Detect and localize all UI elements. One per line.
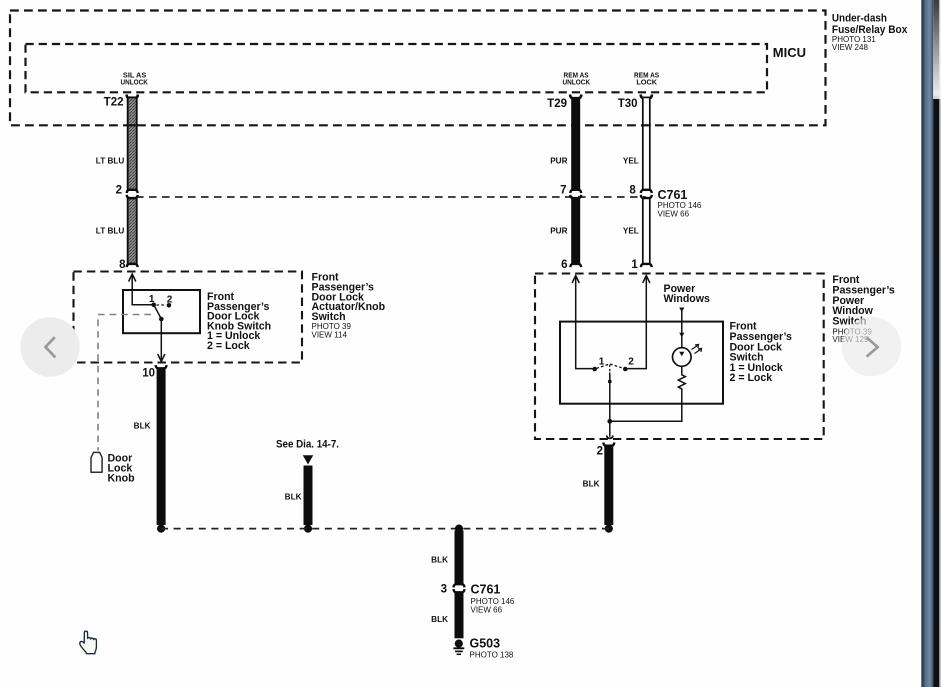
knob switch inner box	[123, 290, 200, 333]
svg-text:LT BLU: LT BLU	[96, 156, 125, 165]
svg-text:UNLOCK: UNLOCK	[120, 79, 148, 86]
svg-text:VIEW 66: VIEW 66	[471, 606, 503, 615]
svg-text:2 = Lock: 2 = Lock	[207, 340, 250, 352]
junction node (See Dia)	[304, 525, 312, 533]
svg-text:VIEW 114: VIEW 114	[312, 331, 348, 340]
svg-text:VIEW 248: VIEW 248	[832, 43, 869, 52]
svg-text:PHOTO 39: PHOTO 39	[312, 322, 352, 331]
resistor	[678, 366, 685, 390]
lamp light rays	[692, 345, 702, 354]
svg-text:T22: T22	[104, 97, 124, 109]
power window switch text block	[832, 274, 895, 344]
svg-text:PHOTO 146: PHOTO 146	[658, 201, 702, 210]
power window switch inner box	[560, 322, 723, 404]
svg-text:8: 8	[629, 185, 636, 197]
svg-text:1: 1	[599, 356, 605, 367]
svg-text:UNLOCK: UNLOCK	[562, 79, 590, 86]
wire T22 upper segment (LT BLU, hatched)	[127, 95, 138, 194]
ground G503 label	[470, 636, 514, 659]
nav circle right	[842, 317, 902, 377]
scrollbar blue thumb	[921, 0, 922, 687]
svg-text:BLK: BLK	[431, 556, 448, 565]
BLK wire from C761 to G503	[454, 589, 465, 638]
under-dash fuse/relay box (outer dashed enclosure)	[10, 11, 826, 126]
junction node (left)	[157, 525, 165, 533]
wire pin 6 to contact 1 (arrow up)	[572, 276, 592, 369]
wire from pin 8 into switch (arrow up)	[129, 274, 153, 305]
svg-text:2: 2	[597, 446, 603, 458]
nav chevron left	[46, 337, 56, 357]
svg-text:PHOTO 138: PHOTO 138	[470, 651, 514, 660]
power window switch box (dashed)	[535, 274, 824, 440]
door lock knob switch box (dashed)	[74, 272, 303, 363]
svg-text:T30: T30	[618, 98, 638, 110]
svg-text:C761: C761	[658, 188, 688, 202]
knob switch contact 2	[167, 303, 172, 308]
label SIL AS UNLOCK	[120, 73, 148, 87]
svg-text:BLK: BLK	[431, 615, 448, 624]
svg-text:BLK: BLK	[134, 422, 151, 431]
svg-text:YEL: YEL	[623, 226, 639, 235]
svg-text:PHOTO 146: PHOTO 146	[471, 597, 515, 606]
svg-text:Windows: Windows	[664, 293, 711, 305]
dashed pivot stem	[609, 365, 611, 373]
scrollbar right light line	[939, 99, 941, 687]
small dot on common wire	[608, 380, 612, 384]
door lock switch contact 2	[623, 367, 628, 372]
junction node (center drop)	[455, 525, 463, 533]
mechanical link dashed line (gray, to door lock knob)	[98, 315, 151, 451]
actuator/knob switch text block	[312, 272, 386, 340]
arrow on lamp feed	[679, 333, 684, 338]
connector C761 (upper) label	[658, 188, 702, 219]
outer box dash crossing over T22 wire	[127, 124, 138, 126]
svg-text:2: 2	[116, 185, 122, 197]
svg-text:Under-dash: Under-dash	[832, 13, 887, 25]
knob switch blade	[154, 305, 162, 319]
BLK wire from pin 2 to junction	[603, 443, 614, 526]
BLK wire from pin 10 to junction	[156, 365, 167, 525]
junction node (right)	[605, 525, 613, 533]
connector break X at box edge	[607, 436, 614, 439]
connector C761 (lower) label	[471, 583, 515, 615]
MICU box (inner dashed enclosure)	[26, 44, 768, 92]
blade pivot dot	[159, 317, 164, 322]
nav circle left	[20, 317, 80, 377]
wire T29 lower segment (PUR, solid)	[570, 195, 581, 267]
svg-text:7: 7	[560, 185, 566, 197]
scrollbar gradient track (top)	[933, 0, 939, 99]
svg-text:LOCK: LOCK	[636, 79, 657, 86]
BLK wire to C761 pin 3	[454, 531, 465, 588]
lamp return wire	[612, 390, 682, 422]
svg-text:PUR: PUR	[550, 226, 567, 235]
knob switch text block	[207, 291, 271, 352]
wire from blade to pin 10 (arrow down)	[158, 319, 165, 362]
svg-text:2 = Lock: 2 = Lock	[730, 372, 773, 384]
wire T29 upper segment (PUR, solid)	[570, 95, 581, 194]
label REM AS UNLOCK	[562, 73, 590, 87]
svg-text:VIEW 66: VIEW 66	[658, 210, 690, 219]
svg-text:1: 1	[631, 259, 638, 271]
svg-text:BLK: BLK	[583, 480, 600, 489]
wire T22 lower segment (LT BLU, hatched)	[127, 195, 138, 267]
door lock knob text	[108, 453, 136, 485]
svg-text:6: 6	[561, 259, 567, 271]
svg-text:10: 10	[142, 368, 155, 380]
arrow below See Dia	[303, 455, 313, 464]
svg-text:T29: T29	[547, 98, 567, 110]
knob switch contact 1	[151, 303, 156, 308]
svg-text:8: 8	[119, 259, 126, 271]
svg-text:Knob: Knob	[108, 472, 136, 484]
svg-text:2: 2	[167, 295, 173, 306]
label REM AS LOCK	[634, 73, 659, 87]
door lock switch contact 1	[592, 367, 597, 372]
scrollbar dark track	[933, 99, 939, 687]
BLK wire (See Dia drop)	[304, 466, 313, 526]
label Power Windows	[664, 283, 711, 305]
arrow from Power Windows label	[679, 308, 684, 313]
ground bus dashed wire	[161, 528, 609, 530]
dashed switch blade (V)	[597, 364, 624, 369]
wire T30 upper segment (YEL, hollow)	[641, 95, 652, 194]
illumination lamp (bulb)	[673, 348, 692, 367]
nav chevron right	[867, 337, 878, 356]
svg-text:See Dia. 14-7.: See Dia. 14-7.	[276, 438, 339, 450]
wire T30 lower segment (YEL, hollow)	[641, 195, 652, 267]
connector C761 dashed line (upper)	[136, 196, 646, 198]
junction dot common/lamp return	[607, 419, 612, 424]
svg-text:MICU: MICU	[773, 45, 806, 60]
svg-text:2: 2	[628, 356, 634, 367]
label: Under-dash Fuse/Relay Box	[832, 13, 908, 53]
svg-text:C761: C761	[471, 583, 501, 597]
svg-text:BLK: BLK	[285, 493, 302, 502]
svg-text:G503: G503	[470, 636, 501, 650]
outer box dash crossing over T30 wire	[642, 124, 651, 126]
svg-text:3: 3	[441, 584, 447, 596]
dashed link between contacts	[157, 304, 167, 306]
door lock switch text block	[730, 321, 793, 385]
svg-text:LT BLU: LT BLU	[96, 226, 125, 235]
wire pin 1 to contact 2 (arrow up)	[628, 276, 650, 369]
hand cursor	[80, 631, 97, 654]
arrow inside lamp	[679, 352, 684, 357]
svg-text:PUR: PUR	[550, 156, 567, 165]
lamp feed wire	[681, 311, 683, 348]
ground G503 symbol	[453, 640, 464, 655]
door lock knob symbol	[91, 452, 102, 472]
svg-text:1: 1	[149, 294, 155, 305]
switch common wire down	[609, 373, 611, 437]
svg-text:YEL: YEL	[623, 156, 639, 165]
